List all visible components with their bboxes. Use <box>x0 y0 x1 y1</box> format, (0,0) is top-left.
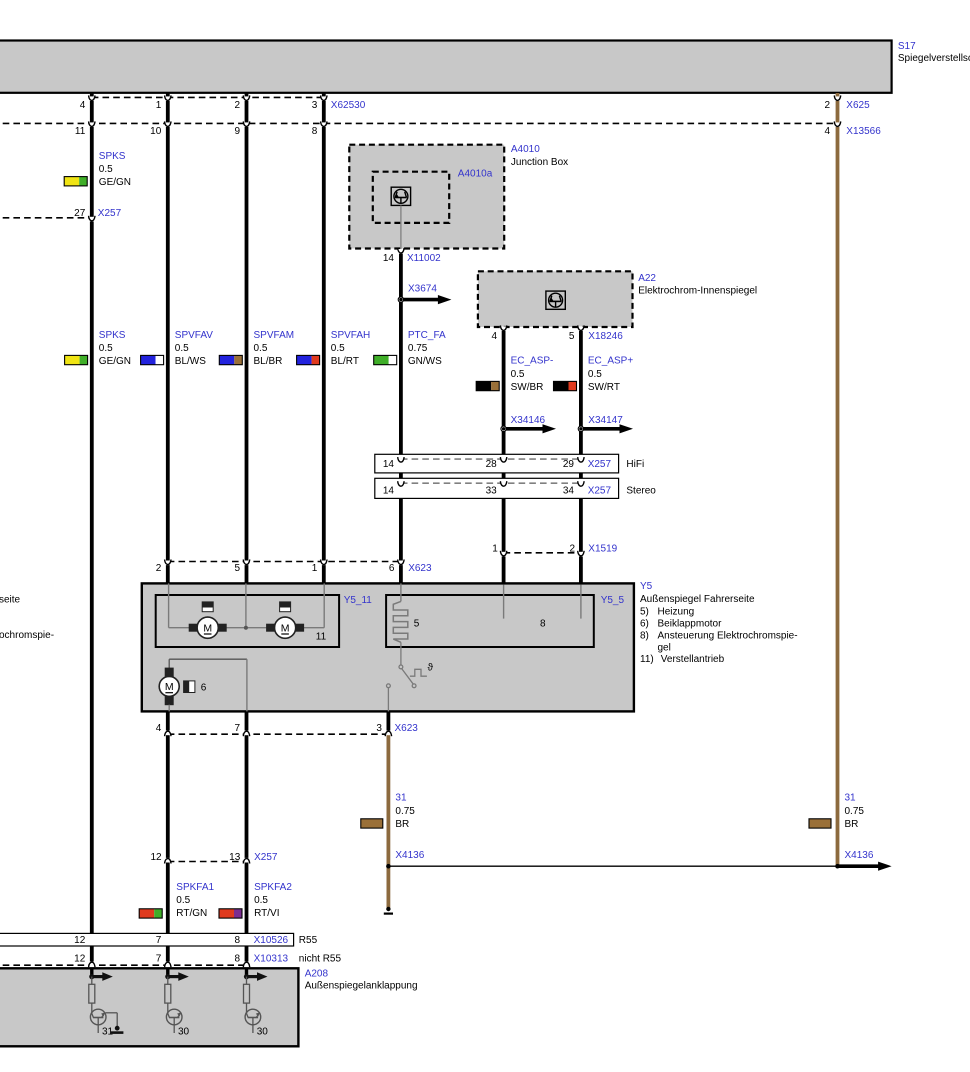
svg-text:X4136: X4136 <box>395 850 424 861</box>
svg-text:M: M <box>165 681 174 693</box>
svg-text:A4010: A4010 <box>511 144 540 155</box>
svg-text:X623: X623 <box>408 563 432 574</box>
svg-text:Ansteuerung Elektrochromspie-: Ansteuerung Elektrochromspie- <box>658 631 798 642</box>
svg-text:11: 11 <box>75 126 86 137</box>
svg-text:8: 8 <box>234 954 240 965</box>
svg-text:8: 8 <box>234 935 240 946</box>
wire A208 drop to resistor x=167.8 <box>167 977 169 985</box>
wire A4010a internal lead <box>400 206 402 250</box>
svg-text:14: 14 <box>383 253 395 264</box>
svg-text:0.5: 0.5 <box>511 369 525 380</box>
svg-text:Y5_11: Y5_11 <box>344 595 373 606</box>
wire Y5 pin 5 riser <box>245 583 247 627</box>
connector X13566 pin 4 mark (BR wire) <box>824 121 840 136</box>
svg-text:seite: seite <box>0 594 21 605</box>
connector X18246 pin 5 mark <box>569 325 584 342</box>
resistor A208 x=167.8 <box>165 984 171 1003</box>
wire label SPVFAM BL/BR <box>219 330 294 367</box>
svg-text:4: 4 <box>824 126 830 137</box>
label Y5 legend <box>640 581 798 665</box>
svg-text:Spiegelverstellschalter: Spiegelverstellschalter <box>898 53 970 64</box>
svg-text:0.75: 0.75 <box>395 806 415 817</box>
wire X4136 horizontal <box>388 865 837 867</box>
svg-text:X623: X623 <box>395 723 419 734</box>
svg-text:0.5: 0.5 <box>331 343 345 354</box>
wire A208 drop to resistor x=91.8 <box>91 977 93 985</box>
cap symbol above motor left <box>202 602 213 612</box>
svg-text:SW/BR: SW/BR <box>511 382 544 393</box>
wire Y5 pin 3 black stub <box>386 711 390 734</box>
wire label SPKS GE/GN (upper) <box>64 151 131 188</box>
connector X257 pin 27 mark <box>74 208 95 221</box>
svg-text:7: 7 <box>234 723 240 734</box>
svg-text:31: 31 <box>395 793 407 804</box>
motor M mirror-adjust right <box>266 617 304 638</box>
svg-text:EC_ASP+: EC_ASP+ <box>588 356 633 367</box>
svg-text:M: M <box>281 623 290 635</box>
svg-text:X62530: X62530 <box>331 100 366 111</box>
switch thermal contact pivot <box>399 665 403 669</box>
connector X257 HiFi pin 29 mark <box>563 457 584 470</box>
svg-text:M: M <box>203 623 212 635</box>
svg-text:2: 2 <box>156 563 162 574</box>
resistor A208 x=91.8 <box>89 984 95 1003</box>
wire motor6 top lead <box>169 659 247 668</box>
connector X623 bottom pin 4 mark <box>156 723 171 736</box>
svg-text:Stereo: Stereo <box>626 486 656 497</box>
svg-text:A4010a: A4010a <box>458 169 493 180</box>
component box Y5 Aussenspiegel Fahrerseite <box>142 583 634 711</box>
svg-text:SPVFAV: SPVFAV <box>175 330 213 341</box>
svg-text:10: 10 <box>150 126 162 137</box>
svg-text:BL/BR: BL/BR <box>254 356 283 367</box>
svg-text:6: 6 <box>389 563 395 574</box>
svg-text:6): 6) <box>640 619 649 630</box>
ECU box A22 Elektrochrom-Innenspiegel <box>478 271 633 327</box>
svg-text:HiFi: HiFi <box>626 459 644 470</box>
connector X257 HiFi dashed line <box>401 458 581 460</box>
wire A208 entry stub x=167.8 <box>166 968 169 977</box>
connector X257 bottom dashed line <box>168 861 247 863</box>
wire label SPKS GE/GN (lower) <box>65 330 131 367</box>
svg-text:S17: S17 <box>898 41 916 52</box>
wire Y5 lower pin 4 to A208 <box>166 711 170 963</box>
svg-text:8: 8 <box>312 126 318 137</box>
symbol clutch right of motor6 <box>184 681 195 693</box>
svg-text:0.5: 0.5 <box>99 343 113 354</box>
connector X1519 pin 2 mark <box>570 543 585 556</box>
svg-text:4: 4 <box>80 100 86 111</box>
svg-text:GE/GN: GE/GN <box>99 356 131 367</box>
svg-text:34: 34 <box>563 486 575 497</box>
svg-text:X257: X257 <box>254 852 278 863</box>
wire label EC_ASP+ SW/RT <box>554 356 634 393</box>
svg-text:30: 30 <box>178 1027 190 1038</box>
label A22 <box>638 273 757 296</box>
svg-text:33: 33 <box>486 486 498 497</box>
connector row X10526 box <box>0 933 294 946</box>
connector X62530 pin 1 mark <box>156 95 171 110</box>
wire EC_ASP+ lead inside Y5 <box>580 585 582 619</box>
svg-text:Heizung: Heizung <box>658 606 695 617</box>
svg-text:8: 8 <box>540 619 546 630</box>
svg-text:4: 4 <box>492 331 498 342</box>
svg-text:X625: X625 <box>846 100 870 111</box>
node X3674 on PTC_FA wire <box>398 297 403 302</box>
node X4136 right junction <box>835 864 840 869</box>
svg-text:5: 5 <box>569 331 575 342</box>
wire label SPVFAV BL/WS <box>141 330 214 367</box>
svg-text:12: 12 <box>74 935 86 946</box>
icon control-unit symbol A4010a <box>391 187 410 205</box>
svg-text:27: 27 <box>74 208 86 219</box>
wire label SPKFA2 RT/VI <box>219 882 292 919</box>
svg-text:X34147: X34147 <box>588 415 623 426</box>
connector X623 pin 5 mark <box>234 560 249 574</box>
connector X257 Stereo pin 14 mark <box>383 481 404 496</box>
svg-text:GN/WS: GN/WS <box>408 356 442 367</box>
connector X13566 pin 10 mark <box>150 121 171 136</box>
wire label PTC_FA GN/WS <box>374 330 446 367</box>
svg-text:R55: R55 <box>299 935 318 946</box>
svg-text:Außenspiegel Fahrerseite: Außenspiegel Fahrerseite <box>640 594 755 605</box>
wire EC_ASP- (A22 pin 4 down) <box>502 327 506 585</box>
svg-text:A22: A22 <box>638 273 656 284</box>
svg-text:14: 14 <box>383 486 395 497</box>
wire 31 BR left (X623 pin 3 to ground) <box>386 734 390 908</box>
svg-text:GE/GN: GE/GN <box>99 177 131 188</box>
svg-text:28: 28 <box>486 459 498 470</box>
resistor A208 x=246.5 <box>244 984 250 1003</box>
svg-text:0.5: 0.5 <box>588 369 602 380</box>
svg-text:BL/WS: BL/WS <box>175 356 206 367</box>
svg-text:ϑ: ϑ <box>428 663 434 674</box>
label A208 <box>305 969 418 992</box>
connector mark at A208 entry x=91.8 <box>89 962 95 968</box>
connector X257 HiFi pin 14 mark <box>383 457 404 470</box>
connector X257 Stereo dashed line <box>401 482 581 484</box>
wire A208 entry stub x=91.8 <box>90 968 93 977</box>
svg-text:Junction Box: Junction Box <box>511 157 568 168</box>
svg-text:EC_ASP-: EC_ASP- <box>511 356 554 367</box>
transistor A208 (30) x=167.8 <box>166 1003 189 1038</box>
connector X62530 pin 4 mark <box>80 95 95 110</box>
svg-text:X10313: X10313 <box>254 954 289 965</box>
svg-text:0.5: 0.5 <box>99 164 113 175</box>
svg-text:0.5: 0.5 <box>176 895 190 906</box>
svg-text:12: 12 <box>74 954 86 965</box>
node A208 branch dot x=167.8 <box>165 974 170 979</box>
arrow X34146 to right <box>506 424 556 433</box>
svg-text:Y5_5: Y5_5 <box>601 595 625 606</box>
node junction between motors <box>244 626 248 630</box>
wire motor bus horizontal <box>169 627 325 629</box>
connector X623 pin 1 mark <box>312 560 327 574</box>
svg-text:X13566: X13566 <box>846 126 881 137</box>
node X34147 on EC_ASP+ wire <box>578 426 583 431</box>
motor M Beiklappmotor <box>159 668 179 706</box>
connector X62530 pin 2 mark <box>234 95 249 110</box>
connector X623 top dashed line <box>168 561 401 563</box>
svg-text:Verstellantrieb: Verstellantrieb <box>661 654 725 665</box>
svg-text:3: 3 <box>376 723 382 734</box>
connector X13566 pin 8 mark <box>312 121 327 136</box>
arrow A208 branch x=246.5 <box>247 972 268 981</box>
svg-text:5): 5) <box>640 606 649 617</box>
svg-text:BL/RT: BL/RT <box>331 356 359 367</box>
node A208 branch dot x=246.5 <box>244 974 249 979</box>
connector X1519 dashed line <box>504 552 581 554</box>
connector X13566 dashed line <box>0 122 838 124</box>
wire switch to pin 3 <box>387 688 389 712</box>
option box X257 HiFi <box>375 454 619 473</box>
svg-text:11): 11) <box>640 654 654 665</box>
connector X62530 dashed line <box>92 96 324 98</box>
svg-text:4: 4 <box>156 723 162 734</box>
svg-text:Außenspiegelanklappung: Außenspiegelanklappung <box>305 980 418 991</box>
connector X13566 pin 11 mark <box>75 121 95 136</box>
wire SPKS (pin 4 S17 to A208) <box>90 93 94 963</box>
sub-box Y5_5 Heizung <box>386 595 594 647</box>
svg-text:7: 7 <box>156 935 162 946</box>
connector X257 Stereo pin 34 mark <box>563 481 584 496</box>
icon control-unit symbol A22 <box>546 291 565 309</box>
label S17 <box>898 41 970 64</box>
svg-text:ochromspie-: ochromspie- <box>0 630 54 641</box>
svg-text:2: 2 <box>234 100 240 111</box>
svg-text:X257: X257 <box>98 208 122 219</box>
wire A208 entry stub x=246.5 <box>245 968 248 977</box>
svg-text:1: 1 <box>492 543 498 554</box>
switch blade end contact <box>412 684 416 688</box>
svg-text:X257: X257 <box>588 486 612 497</box>
wire label SPVFAH BL/RT <box>297 330 371 367</box>
node X34146 on EC_ASP- wire <box>501 426 506 431</box>
connector mark at A208 entry x=167.8 <box>165 962 171 968</box>
connector X623 bottom pin 7 mark <box>234 723 249 736</box>
wire label 31 BR (left) <box>361 793 416 831</box>
svg-text:SPKFA2: SPKFA2 <box>254 882 292 893</box>
label A4010 Junction Box <box>511 144 568 168</box>
connector X257 pin 12 mark <box>150 852 171 864</box>
symbol thermal actuation <box>410 669 427 676</box>
wire A208 drop to resistor x=246.5 <box>246 977 248 985</box>
svg-text:5: 5 <box>414 619 420 630</box>
transistor A208 (30) x=246.5 <box>245 1003 268 1038</box>
connector X257 Stereo pin 33 mark <box>486 481 507 496</box>
svg-text:RT/VI: RT/VI <box>254 908 279 919</box>
svg-text:X34146: X34146 <box>511 415 546 426</box>
connector X623 pin 6 mark <box>389 560 404 574</box>
connector X13566 pin 9 mark <box>234 121 249 136</box>
wire Y5 pin 1 riser <box>323 583 325 627</box>
connector X1519 pin 1 mark <box>492 543 507 556</box>
svg-text:PTC_FA: PTC_FA <box>408 330 446 341</box>
svg-text:BR: BR <box>395 819 409 830</box>
connector X18246 pin 4 mark <box>492 325 507 342</box>
svg-text:BR: BR <box>845 819 859 830</box>
svg-text:1: 1 <box>156 100 162 111</box>
svg-text:Y5: Y5 <box>640 581 653 592</box>
connector X257 pin 27 dashed line <box>0 217 92 219</box>
connector X257 pin 13 mark <box>229 852 250 864</box>
transistor A208 (31) x=91.8 <box>90 1003 123 1038</box>
svg-text:X4136: X4136 <box>845 850 874 861</box>
arrow X4136 continuation right <box>838 862 892 871</box>
svg-text:29: 29 <box>563 459 575 470</box>
wire EC_ASP+ (A22 pin 5 down) <box>579 327 583 585</box>
svg-text:9: 9 <box>234 126 240 137</box>
svg-text:X10526: X10526 <box>254 935 289 946</box>
arrow X34147 to right <box>583 424 633 433</box>
svg-text:30: 30 <box>257 1027 269 1038</box>
wire heater to switch <box>400 642 402 665</box>
connector X623 bottom pin 3 mark <box>376 723 391 736</box>
connector X623 pin 2 mark <box>156 560 171 574</box>
svg-text:1: 1 <box>312 563 318 574</box>
svg-text:12: 12 <box>150 852 162 863</box>
wire Y5 pin 6 riser <box>400 583 402 601</box>
svg-text:X257: X257 <box>588 459 612 470</box>
svg-text:0.5: 0.5 <box>175 343 189 354</box>
arrow X3674 to right <box>403 295 452 304</box>
svg-text:0.75: 0.75 <box>408 343 428 354</box>
svg-text:SPKS: SPKS <box>99 330 126 341</box>
svg-text:gel: gel <box>658 643 671 654</box>
svg-text:5: 5 <box>234 563 240 574</box>
switch blade <box>402 669 414 685</box>
wire Y5 lower pin 7 to A208 <box>245 711 249 963</box>
svg-text:Elektrochrom-Innenspiegel: Elektrochrom-Innenspiegel <box>638 285 757 296</box>
wire PTC_FA (X11002 to Y5 pin 6) <box>399 250 403 583</box>
svg-text:X3674: X3674 <box>408 284 437 295</box>
svg-text:13: 13 <box>229 852 241 863</box>
svg-text:X18246: X18246 <box>588 331 623 342</box>
svg-text:6: 6 <box>201 683 207 694</box>
cap symbol above motor right <box>280 602 291 612</box>
control unit S17 Spiegelverstellschalter (bus bar) <box>0 41 892 93</box>
svg-text:nicht R55: nicht R55 <box>299 954 342 965</box>
wire 31 BR right (S17 pin 2 to X4136) <box>836 93 840 866</box>
svg-text:0.5: 0.5 <box>254 895 268 906</box>
svg-text:2: 2 <box>824 100 830 111</box>
switch fixed contact <box>387 684 391 688</box>
connector X10313 dashed line <box>0 964 250 966</box>
svg-text:X11002: X11002 <box>407 253 441 264</box>
svg-text:Beiklappmotor: Beiklappmotor <box>658 619 723 630</box>
wire motor6 bottom to pin 4 <box>168 705 170 712</box>
svg-text:0.5: 0.5 <box>254 343 268 354</box>
svg-text:7: 7 <box>156 954 162 965</box>
motor M mirror-adjust left <box>189 617 227 638</box>
ECU box A4010 Junction Box <box>349 145 504 249</box>
connector mark at A208 entry x=246.5 <box>243 962 249 968</box>
svg-text:14: 14 <box>383 459 395 470</box>
connector X257 HiFi pin 28 mark <box>486 457 507 470</box>
node A208 branch dot x=91.8 <box>89 974 94 979</box>
svg-text:A208: A208 <box>305 969 329 980</box>
svg-text:0.75: 0.75 <box>845 806 865 817</box>
svg-text:2: 2 <box>570 543 576 554</box>
svg-text:3: 3 <box>312 100 318 111</box>
svg-text:8): 8) <box>640 631 649 642</box>
svg-text:RT/GN: RT/GN <box>176 908 207 919</box>
node X4136 left junction <box>386 864 391 869</box>
svg-text:31: 31 <box>845 793 857 804</box>
wire EC_ASP- lead inside Y5 <box>503 585 505 619</box>
svg-text:11: 11 <box>316 632 327 643</box>
svg-text:SPKS: SPKS <box>99 151 126 162</box>
wire label SPKFA1 RT/GN <box>139 882 214 919</box>
wire SPVFAV (pin 1 S17 to Y5 pin 2) <box>166 93 170 583</box>
ground terminal 31 (BR wire end) <box>384 907 393 914</box>
ECU sub-box A4010a <box>373 172 449 223</box>
connector X625 pin 2 mark <box>824 95 840 110</box>
wire motor6 right drop to pin 7 <box>246 659 248 711</box>
arrow A208 branch x=167.8 <box>168 972 189 981</box>
connector X62530 pin 3 mark <box>312 95 327 110</box>
wire label 31 BR (right) <box>809 793 864 831</box>
svg-text:SW/RT: SW/RT <box>588 382 620 393</box>
sub-box Y5_11 Verstellantrieb <box>156 595 339 647</box>
component box A208 Aussenspiegelanklappung <box>0 968 298 1046</box>
svg-text:SPVFAM: SPVFAM <box>254 330 295 341</box>
wire SPVFAM (pin 2 S17 to Y5 pin 5) <box>245 93 249 583</box>
wire SPVFAH (pin 3 S17 to Y5 pin 1) <box>322 93 326 583</box>
resistor heating element 5 <box>393 601 408 642</box>
svg-text:SPKFA1: SPKFA1 <box>176 882 214 893</box>
wire label EC_ASP- SW/BR <box>476 356 553 393</box>
connector X623 bottom dashed line <box>168 733 389 735</box>
svg-text:SPVFAH: SPVFAH <box>331 330 370 341</box>
svg-text:X1519: X1519 <box>588 543 617 554</box>
wire Y5 pin 2 riser <box>168 583 170 627</box>
option box X257 Stereo <box>375 478 619 498</box>
arrow A208 branch x=91.8 <box>92 972 113 981</box>
connector X11002 pin 14 mark <box>383 248 404 264</box>
